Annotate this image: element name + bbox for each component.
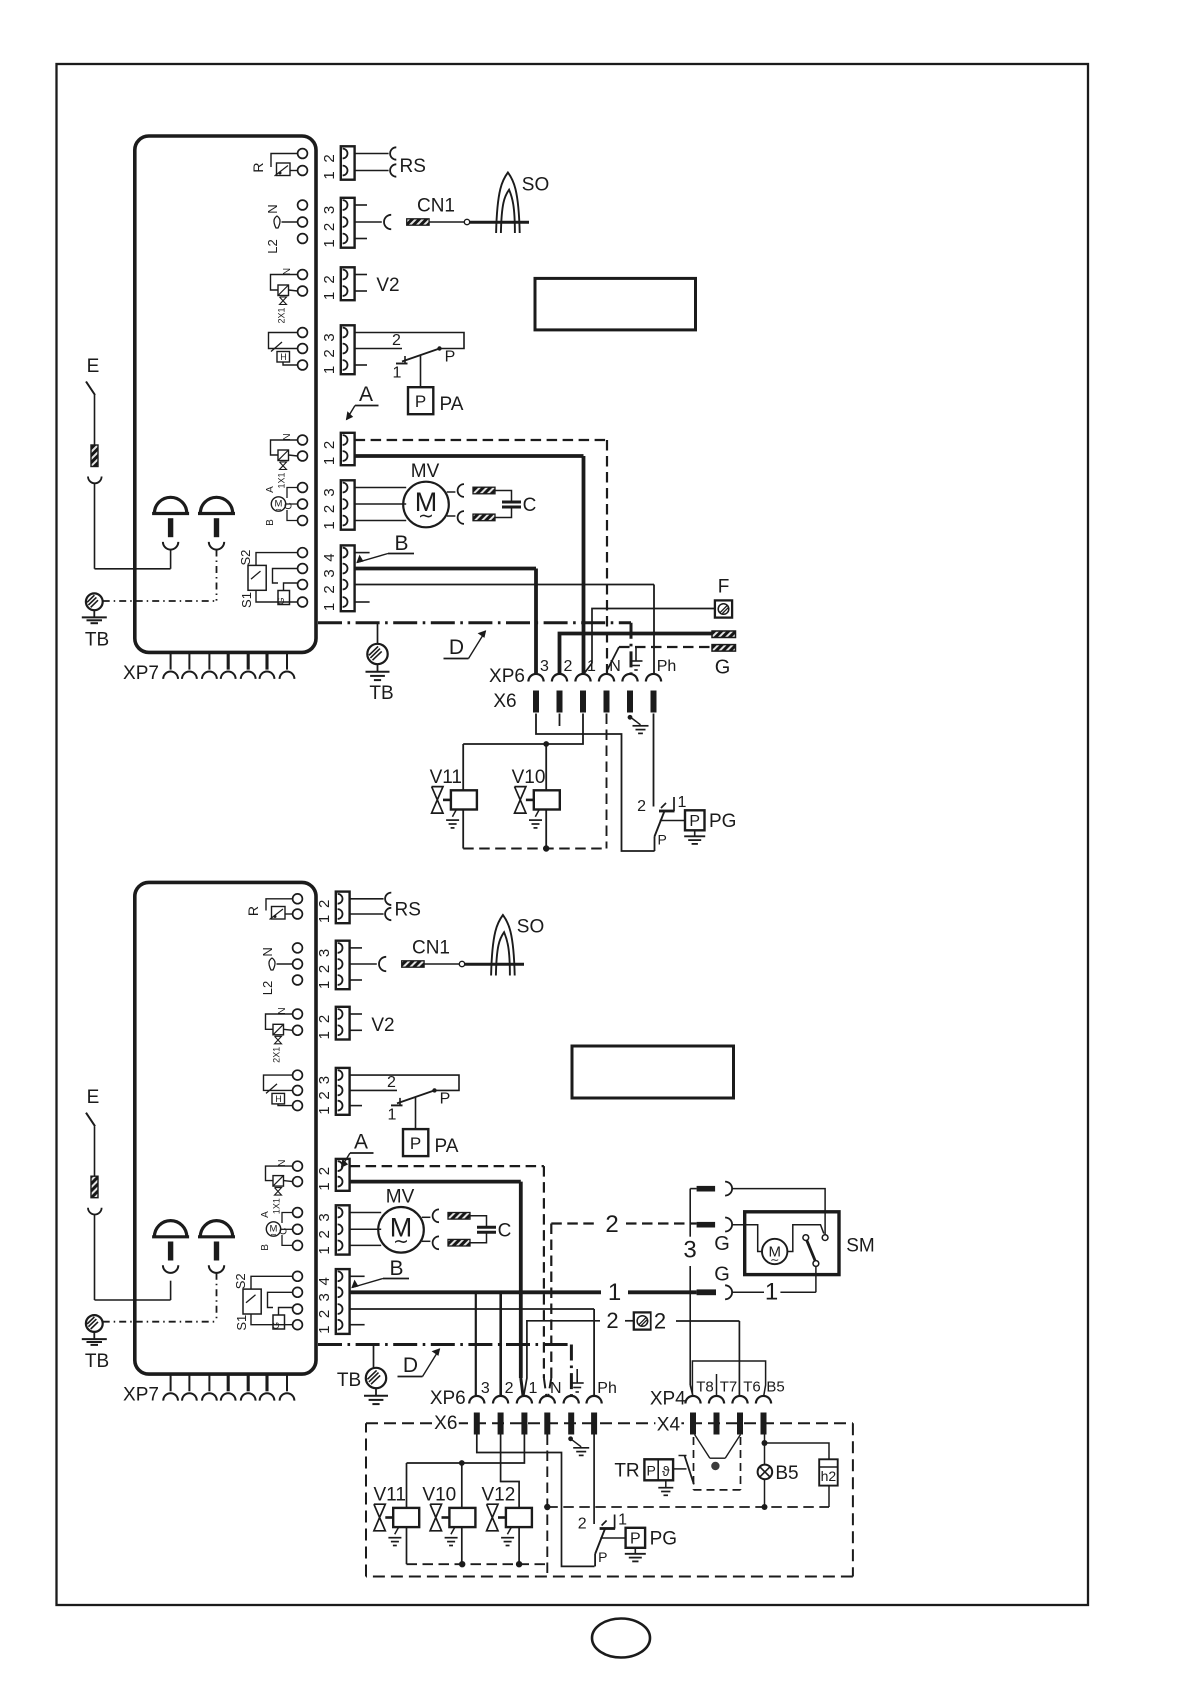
svg-text:2: 2 <box>637 798 646 815</box>
svg-text:2: 2 <box>387 1074 396 1091</box>
svg-text:B: B <box>260 1244 271 1251</box>
svg-text:G: G <box>715 657 731 679</box>
svg-text:TB: TB <box>337 1370 361 1391</box>
svg-text:∼: ∼ <box>770 1255 779 1267</box>
svg-text:P: P <box>689 813 700 830</box>
svg-text:2: 2 <box>564 658 573 675</box>
svg-text:G: G <box>271 1322 282 1329</box>
svg-text:PA: PA <box>440 394 464 415</box>
svg-text:1: 1 <box>321 171 338 179</box>
svg-text:S1: S1 <box>234 1315 249 1331</box>
svg-text:2: 2 <box>316 1015 333 1023</box>
svg-text:1: 1 <box>587 658 596 675</box>
svg-text:V10: V10 <box>422 1484 456 1505</box>
svg-text:CN1: CN1 <box>412 938 450 959</box>
svg-text:2X1: 2X1 <box>277 307 287 323</box>
svg-text:B: B <box>389 1257 403 1280</box>
svg-text:1: 1 <box>316 981 333 989</box>
svg-text:S2: S2 <box>233 1273 248 1289</box>
svg-text:R: R <box>250 162 266 172</box>
svg-text:1: 1 <box>393 365 402 382</box>
svg-text:SM: SM <box>846 1236 875 1257</box>
svg-text:∼: ∼ <box>275 505 282 514</box>
svg-text:C: C <box>284 502 295 509</box>
svg-text:2: 2 <box>606 1308 618 1333</box>
svg-text:A: A <box>359 383 373 406</box>
svg-text:ϑ: ϑ <box>662 1463 670 1479</box>
svg-text:B: B <box>265 519 276 526</box>
svg-text:G: G <box>714 1264 730 1286</box>
svg-text:N: N <box>265 204 280 213</box>
svg-text:RS: RS <box>394 900 420 921</box>
svg-text:h2: h2 <box>821 1468 837 1484</box>
svg-text:F: F <box>718 577 730 598</box>
svg-text:XP7: XP7 <box>123 663 159 684</box>
svg-text:2: 2 <box>654 1309 666 1334</box>
svg-text:1: 1 <box>316 1106 333 1114</box>
svg-text:2: 2 <box>392 332 401 349</box>
svg-text:A: A <box>354 1131 368 1154</box>
svg-text:N: N <box>609 658 621 675</box>
svg-text:H: H <box>280 352 287 362</box>
svg-text:Ph: Ph <box>597 1380 617 1397</box>
svg-text:3: 3 <box>316 949 333 957</box>
svg-text:3: 3 <box>481 1380 490 1397</box>
svg-text:XP4: XP4 <box>650 1389 686 1410</box>
svg-text:B: B <box>394 532 408 555</box>
svg-text:C: C <box>279 1228 290 1235</box>
svg-text:1X1: 1X1 <box>272 1198 282 1214</box>
svg-text:TB: TB <box>369 683 393 704</box>
svg-text:1: 1 <box>321 521 338 529</box>
svg-text:1: 1 <box>528 1380 537 1397</box>
svg-text:2: 2 <box>316 900 333 908</box>
svg-text:V11: V11 <box>373 1484 405 1505</box>
svg-text:X6: X6 <box>434 1413 457 1434</box>
svg-text:C: C <box>498 1220 512 1241</box>
svg-text:X6: X6 <box>493 691 516 712</box>
svg-text:P: P <box>630 1530 641 1547</box>
svg-text:3: 3 <box>321 333 338 341</box>
svg-text:R: R <box>245 906 261 916</box>
svg-text:2: 2 <box>321 223 338 231</box>
svg-text:1: 1 <box>765 1279 778 1306</box>
svg-text:Ph: Ph <box>657 658 677 675</box>
svg-text:1: 1 <box>388 1106 397 1123</box>
svg-text:2: 2 <box>605 1211 618 1238</box>
svg-text:N: N <box>550 1380 562 1397</box>
svg-text:2: 2 <box>321 349 338 357</box>
svg-text:V2: V2 <box>371 1015 394 1036</box>
svg-text:MV: MV <box>411 461 440 482</box>
svg-text:1: 1 <box>678 794 687 811</box>
svg-text:PA: PA <box>435 1136 459 1157</box>
svg-text:D: D <box>403 1354 418 1377</box>
svg-text:∼: ∼ <box>270 1230 277 1239</box>
svg-text:1: 1 <box>321 603 338 611</box>
svg-text:3: 3 <box>540 658 549 675</box>
svg-text:XP7: XP7 <box>123 1385 159 1406</box>
svg-text:V11: V11 <box>430 767 462 788</box>
svg-text:G: G <box>276 597 287 604</box>
svg-text:1: 1 <box>608 1279 621 1306</box>
svg-text:TB: TB <box>85 1351 109 1372</box>
svg-text:V2: V2 <box>376 275 399 296</box>
svg-text:2: 2 <box>505 1380 514 1397</box>
svg-text:1: 1 <box>316 1182 333 1190</box>
svg-text:CN1: CN1 <box>417 196 455 217</box>
svg-text:4: 4 <box>316 1277 333 1285</box>
svg-text:2: 2 <box>321 441 338 449</box>
svg-text:1: 1 <box>316 915 333 923</box>
svg-text:3: 3 <box>316 1076 333 1084</box>
svg-text:1: 1 <box>316 1246 333 1254</box>
svg-text:V10: V10 <box>512 767 546 788</box>
svg-text:2: 2 <box>321 275 338 283</box>
svg-text:MV: MV <box>386 1186 415 1207</box>
svg-text:N: N <box>260 947 275 956</box>
svg-text:L2: L2 <box>260 981 275 995</box>
svg-text:1: 1 <box>316 1326 333 1334</box>
svg-text:4: 4 <box>321 553 338 561</box>
svg-text:1: 1 <box>321 457 338 465</box>
svg-text:2: 2 <box>316 1091 333 1099</box>
svg-text:2X1: 2X1 <box>272 1047 282 1063</box>
svg-text:P: P <box>647 1462 656 1478</box>
svg-text:2: 2 <box>321 154 338 162</box>
svg-text:X4: X4 <box>657 1415 681 1436</box>
svg-text:B5: B5 <box>775 1463 798 1484</box>
svg-text:P: P <box>445 349 456 366</box>
svg-text:2: 2 <box>321 585 338 593</box>
svg-text:PG: PG <box>650 1529 677 1550</box>
svg-text:RS: RS <box>399 156 425 177</box>
svg-text:B5: B5 <box>766 1379 784 1396</box>
svg-text:A: A <box>260 1211 271 1218</box>
svg-text:TR: TR <box>614 1461 639 1482</box>
svg-text:2: 2 <box>316 1230 333 1238</box>
svg-text:1: 1 <box>316 1031 333 1039</box>
svg-text:P: P <box>598 1549 607 1565</box>
svg-text:SO: SO <box>522 175 549 196</box>
svg-text:2: 2 <box>316 1310 333 1318</box>
svg-text:3: 3 <box>683 1237 696 1264</box>
svg-text:3: 3 <box>321 488 338 496</box>
svg-text:XP6: XP6 <box>489 666 525 687</box>
svg-text:P: P <box>415 392 426 411</box>
svg-text:2: 2 <box>316 1167 333 1175</box>
svg-text:∼: ∼ <box>418 506 434 527</box>
svg-text:G: G <box>714 1233 730 1255</box>
svg-text:E: E <box>87 1087 100 1108</box>
svg-text:H: H <box>275 1094 282 1104</box>
svg-text:∼: ∼ <box>393 1231 409 1252</box>
svg-text:3: 3 <box>321 206 338 214</box>
svg-text:V12: V12 <box>481 1484 515 1505</box>
svg-text:SO: SO <box>517 917 544 938</box>
svg-text:3: 3 <box>316 1293 333 1301</box>
svg-text:2: 2 <box>578 1516 587 1533</box>
svg-text:A: A <box>265 486 276 493</box>
svg-text:1: 1 <box>618 1512 627 1529</box>
svg-text:3: 3 <box>321 569 338 577</box>
svg-text:S1: S1 <box>239 592 254 608</box>
svg-text:1: 1 <box>321 366 338 374</box>
svg-text:TB: TB <box>85 630 109 651</box>
svg-text:1: 1 <box>321 292 338 300</box>
svg-text:1X1: 1X1 <box>277 472 287 488</box>
svg-text:P: P <box>440 1090 451 1107</box>
svg-text:D: D <box>449 636 464 659</box>
svg-text:3: 3 <box>316 1213 333 1221</box>
svg-text:E: E <box>87 356 100 377</box>
svg-text:L2: L2 <box>265 239 280 253</box>
svg-text:XP6: XP6 <box>430 1388 466 1409</box>
svg-text:T7: T7 <box>720 1379 738 1396</box>
svg-text:P: P <box>658 832 667 848</box>
svg-text:PG: PG <box>709 811 736 832</box>
svg-text:2: 2 <box>316 965 333 973</box>
svg-text:S2: S2 <box>238 550 253 566</box>
svg-text:C: C <box>523 495 537 516</box>
svg-text:2: 2 <box>321 505 338 513</box>
svg-text:T6: T6 <box>743 1379 761 1396</box>
svg-text:1: 1 <box>321 239 338 247</box>
svg-text:P: P <box>410 1134 421 1153</box>
svg-text:T8: T8 <box>696 1379 714 1396</box>
